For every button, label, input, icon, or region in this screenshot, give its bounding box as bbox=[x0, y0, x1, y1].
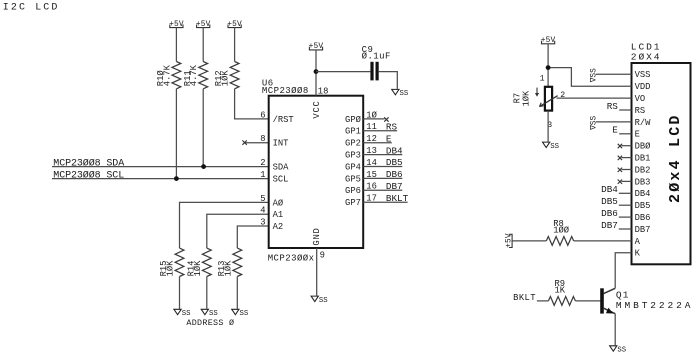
svg-text:1: 1 bbox=[260, 170, 265, 180]
wire R14 to ground bbox=[206, 277, 208, 309]
pin label VCC bbox=[312, 100, 322, 118]
net label DB5 bbox=[386, 157, 403, 168]
svg-text:/RST: /RST bbox=[273, 115, 294, 125]
resistor R14 10K bbox=[186, 248, 211, 276]
net label E at LCD bbox=[612, 125, 618, 136]
svg-text:1K: 1K bbox=[555, 285, 566, 295]
wire INT pin 8 stub bbox=[245, 142, 269, 144]
resistor R8 100 bbox=[546, 219, 573, 245]
LCD1 pin labels bbox=[635, 70, 652, 259]
svg-text:DB5: DB5 bbox=[386, 157, 403, 168]
power +5V above R12 bbox=[227, 21, 242, 29]
ground VSS below R7 bbox=[543, 142, 560, 151]
svg-text:GP4: GP4 bbox=[345, 162, 361, 172]
net label MCP23008_SDA bbox=[53, 157, 124, 169]
svg-text:VO: VO bbox=[635, 94, 646, 104]
power +5V above R11 bbox=[196, 21, 211, 29]
svg-text:BKLT: BKLT bbox=[386, 193, 409, 204]
svg-text:AØ: AØ bbox=[273, 198, 284, 208]
svg-text:2: 2 bbox=[560, 91, 565, 100]
pin label GND bbox=[312, 227, 322, 245]
svg-text:I2C LCD: I2C LCD bbox=[3, 2, 60, 13]
svg-text:SS: SS bbox=[617, 347, 626, 355]
svg-text:DB6: DB6 bbox=[635, 213, 651, 223]
label 20x4 LCD rotated bbox=[667, 113, 684, 203]
wire R/W pin bbox=[596, 121, 632, 123]
svg-text:RS: RS bbox=[635, 106, 646, 116]
svg-text:8: 8 bbox=[260, 134, 265, 144]
svg-text:E: E bbox=[635, 130, 640, 140]
wire net MCP23008_SDA bbox=[52, 166, 269, 168]
svg-text:DB7: DB7 bbox=[601, 220, 618, 231]
svg-text:GND: GND bbox=[312, 227, 322, 245]
U6 right pin labels GP0-GP7 and numbers bbox=[345, 110, 378, 208]
svg-text:1ØK: 1ØK bbox=[166, 260, 176, 277]
svg-text:RS: RS bbox=[607, 101, 619, 112]
op-amp? no: IC U6 MCP23008 box bbox=[269, 96, 364, 248]
wire R15 to ground bbox=[179, 277, 181, 309]
wire K pin to Q1 collector bbox=[615, 253, 631, 288]
U6 left pin labels and numbers bbox=[260, 110, 294, 232]
title I2C LCD bbox=[3, 2, 60, 13]
svg-text:INT: INT bbox=[273, 139, 289, 149]
svg-text:DB5: DB5 bbox=[635, 201, 651, 211]
label MCP2300x bbox=[268, 253, 315, 263]
svg-text:ADDRESS Ø: ADDRESS Ø bbox=[186, 318, 234, 328]
svg-text:MCP23ØØ8: MCP23ØØ8 bbox=[262, 86, 309, 96]
svg-text:1ØK: 1ØK bbox=[193, 260, 203, 277]
svg-text:2: 2 bbox=[260, 158, 265, 168]
svg-text:GP1: GP1 bbox=[345, 127, 361, 137]
svg-text:DB4: DB4 bbox=[386, 145, 403, 156]
ground VSS at C9 bbox=[392, 89, 409, 98]
svg-text:SS: SS bbox=[240, 310, 249, 318]
resistor R13 10K bbox=[217, 248, 242, 276]
Q1 collector lead bbox=[604, 288, 616, 293]
svg-text:MCP23ØØ8_SDA: MCP23ØØ8_SDA bbox=[53, 157, 124, 169]
svg-text:Ø.1uF: Ø.1uF bbox=[362, 51, 391, 61]
svg-text:A1: A1 bbox=[273, 210, 284, 220]
svg-text:VSS: VSS bbox=[635, 70, 651, 80]
no-connect mark DB2 bbox=[618, 168, 622, 172]
no-connect mark DB0 bbox=[618, 144, 622, 148]
svg-text:DB7: DB7 bbox=[386, 181, 403, 192]
resistor R9 1K bbox=[548, 279, 575, 305]
wire DB5 pin bbox=[619, 204, 632, 206]
net label DB6 bbox=[386, 169, 403, 180]
net label RS at LCD bbox=[607, 101, 619, 112]
svg-text:DB5: DB5 bbox=[601, 196, 618, 207]
ground VSS label at LCD VSS bbox=[590, 68, 599, 83]
LCD1 box bbox=[632, 63, 691, 264]
wire C9 to ground bbox=[379, 72, 398, 89]
wire R12 to /RST pin 6 bbox=[235, 89, 269, 119]
svg-text:GP3: GP3 bbox=[345, 151, 361, 161]
svg-text:DB6: DB6 bbox=[601, 208, 618, 219]
svg-text:SS: SS bbox=[550, 143, 559, 151]
svg-text:∇SS: ∇SS bbox=[590, 116, 599, 131]
wire GP4 net DB5 bbox=[363, 166, 402, 168]
svg-text:A: A bbox=[635, 237, 641, 247]
ground VSS label at R/W bbox=[590, 116, 599, 131]
wire Q1 emitter to ground bbox=[614, 314, 616, 346]
svg-text:1ØK: 1ØK bbox=[223, 260, 233, 277]
resistor R12 10K bbox=[214, 62, 239, 89]
resistor R15 10K bbox=[159, 248, 184, 276]
R7 wiper arrow bbox=[540, 96, 558, 107]
ground VSS below Q1 bbox=[610, 346, 627, 355]
pin number 9 bbox=[320, 250, 325, 260]
wire GP6 net DB7 bbox=[363, 189, 402, 191]
svg-text:VCC: VCC bbox=[312, 100, 322, 118]
power +5V above R7 bbox=[541, 37, 556, 45]
net label DB7 at LCD bbox=[601, 220, 618, 231]
no-connect mark INT bbox=[242, 140, 246, 144]
refdes U6 bbox=[262, 79, 274, 89]
capacitor C9 0.1uF bbox=[362, 45, 391, 81]
refdes LCD1 bbox=[631, 42, 662, 53]
wire R9 to Q1 base bbox=[575, 300, 600, 302]
svg-text:4.7K: 4.7K bbox=[162, 64, 172, 86]
svg-text:9: 9 bbox=[320, 250, 325, 260]
svg-text:4.7K: 4.7K bbox=[189, 64, 199, 86]
svg-text:SS: SS bbox=[182, 310, 191, 318]
refdes Q1 bbox=[616, 290, 630, 301]
svg-text:DB2: DB2 bbox=[635, 165, 651, 175]
wire A pin to R15 bbox=[180, 202, 269, 248]
value 10K rotated bbox=[522, 90, 532, 107]
junction VCC/C9 bbox=[314, 69, 319, 74]
svg-text:GP7: GP7 bbox=[345, 198, 361, 208]
wire DB1 stub bbox=[621, 157, 631, 159]
resistor R11 4.7K bbox=[183, 62, 208, 89]
net label DB6 at LCD bbox=[601, 208, 618, 219]
wire +5V to R10 bbox=[175, 28, 177, 62]
wire +5V to R11 bbox=[202, 28, 204, 62]
power +5V above U6 bbox=[309, 43, 324, 51]
pin number 18 bbox=[318, 86, 329, 96]
wire R10 to SCL net bbox=[175, 89, 177, 179]
wire DB6 pin bbox=[619, 216, 632, 218]
wire GP3 net DB4 bbox=[363, 154, 402, 156]
junction SCL/R10 bbox=[174, 176, 179, 181]
no-connect mark DB3 bbox=[618, 180, 622, 184]
svg-text:1ØK: 1ØK bbox=[522, 90, 532, 107]
wire GP1 net RS bbox=[363, 130, 397, 132]
svg-text:GP5: GP5 bbox=[345, 174, 361, 184]
svg-text:E: E bbox=[386, 133, 392, 144]
svg-text:MMBT2222A: MMBT2222A bbox=[616, 300, 693, 311]
wire DB3 stub bbox=[621, 180, 631, 182]
svg-text:5: 5 bbox=[260, 194, 265, 204]
svg-text:SS: SS bbox=[319, 297, 328, 305]
wire GP5 net DB6 bbox=[363, 177, 402, 179]
wire VCC junction to C9 bbox=[316, 71, 370, 73]
wire VCC pin 18 bbox=[315, 50, 317, 96]
svg-text:DBØ: DBØ bbox=[635, 142, 652, 152]
svg-text:DB6: DB6 bbox=[386, 169, 403, 180]
net label DB7 bbox=[386, 181, 403, 192]
junction SDA/R11 bbox=[201, 164, 206, 169]
svg-text:RS: RS bbox=[386, 122, 398, 133]
svg-text:SCL: SCL bbox=[273, 175, 289, 185]
svg-text:K: K bbox=[635, 249, 641, 259]
wire RS pin bbox=[619, 109, 631, 111]
wire +5V to R8 bbox=[512, 240, 546, 242]
svg-text:A2: A2 bbox=[273, 222, 284, 232]
wire DB7 pin bbox=[619, 228, 632, 230]
wire wiper to VO bbox=[557, 97, 632, 99]
wire +5V to R7 pin1 bbox=[547, 44, 549, 87]
net label E bbox=[386, 133, 392, 144]
net label DB4 at LCD bbox=[601, 184, 618, 195]
svg-text:∇SS: ∇SS bbox=[590, 68, 599, 83]
wire A pin to R14 bbox=[207, 214, 269, 248]
wire DB4 pin bbox=[619, 192, 632, 194]
ground VSS below U6 bbox=[311, 296, 328, 305]
wire GP0 pin 10 stub bbox=[363, 118, 384, 120]
net label DB4 bbox=[386, 145, 403, 156]
svg-text:MCP23ØØx: MCP23ØØx bbox=[268, 253, 315, 263]
no-connect mark DB1 bbox=[618, 156, 622, 160]
wire GP7 net BKLT bbox=[363, 201, 407, 203]
svg-text:BKLT: BKLT bbox=[513, 293, 536, 303]
svg-text:DB4: DB4 bbox=[635, 189, 651, 199]
junction R7/VDD bbox=[546, 65, 551, 70]
wire VSS pin bbox=[596, 73, 632, 75]
wire R13 to ground bbox=[236, 277, 238, 309]
svg-text:GP2: GP2 bbox=[345, 139, 361, 149]
wire DB0 stub bbox=[621, 145, 631, 147]
svg-text:3: 3 bbox=[260, 217, 265, 227]
wire BKLT to R9 bbox=[537, 300, 549, 302]
refdes R7 rotated bbox=[513, 93, 523, 104]
wire DB2 stub bbox=[621, 169, 631, 171]
svg-text:18: 18 bbox=[318, 86, 329, 96]
R7 pin 1 number bbox=[540, 74, 545, 83]
svg-text:DB1: DB1 bbox=[635, 154, 651, 164]
net label MCP23008_SCL bbox=[53, 169, 124, 181]
svg-text:E: E bbox=[612, 125, 618, 136]
power +5V above R10 bbox=[169, 21, 184, 29]
svg-text:1: 1 bbox=[540, 74, 545, 83]
svg-text:1ØØ: 1ØØ bbox=[553, 226, 570, 236]
svg-text:SS: SS bbox=[209, 310, 218, 318]
net label RS bbox=[386, 122, 398, 133]
wire A pin bbox=[574, 240, 632, 242]
svg-text:SDA: SDA bbox=[273, 163, 290, 173]
wire +5V to VDD bbox=[548, 68, 631, 87]
transistor Q1 base bar bbox=[600, 288, 604, 313]
svg-text:GP6: GP6 bbox=[345, 186, 361, 196]
svg-text:VDD: VDD bbox=[635, 82, 651, 92]
power +5V left of R8 bbox=[506, 233, 514, 248]
wire R7 pin3 to ground bbox=[547, 111, 549, 142]
no-connect mark GP0 bbox=[384, 117, 388, 121]
wire R11 to SDA net bbox=[202, 89, 204, 167]
value MMBT2222A bbox=[616, 300, 693, 311]
value MCP23008 bbox=[262, 86, 309, 96]
net label BKLT bbox=[386, 193, 409, 204]
svg-text:2ØX4: 2ØX4 bbox=[631, 52, 662, 63]
svg-text:SS: SS bbox=[400, 90, 409, 98]
svg-text:DB4: DB4 bbox=[601, 184, 618, 195]
R7 pin 3 number bbox=[547, 121, 552, 130]
wire E pin bbox=[619, 133, 631, 135]
svg-text:1ØK: 1ØK bbox=[221, 70, 231, 87]
value 20X4 bbox=[631, 52, 662, 63]
svg-text:DB3: DB3 bbox=[635, 177, 651, 187]
wire net MCP23008_SCL bbox=[52, 178, 269, 180]
net label DB5 at LCD bbox=[601, 196, 618, 207]
wire GND pin 9 bbox=[316, 248, 318, 296]
potentiometer R7 body bbox=[545, 87, 552, 111]
R7 pin 2 number bbox=[560, 91, 565, 100]
net label BKLT bbox=[513, 293, 536, 303]
svg-text:DB7: DB7 bbox=[635, 225, 651, 235]
wire A pin to R13 bbox=[237, 226, 268, 248]
svg-text:R/W: R/W bbox=[635, 118, 652, 128]
ground VSS below R15 bbox=[174, 309, 191, 318]
svg-text:6: 6 bbox=[260, 110, 265, 120]
label ADDRESS 0 bbox=[186, 318, 234, 328]
wire GP2 net E bbox=[363, 142, 392, 144]
ground VSS below R14 bbox=[201, 309, 218, 318]
resistor R10 4.7K bbox=[156, 62, 181, 89]
ground VSS below R13 bbox=[232, 309, 249, 318]
svg-text:2Øx4 LCD: 2Øx4 LCD bbox=[667, 113, 684, 203]
Q1 emitter arrow bbox=[606, 308, 614, 314]
Q1 emitter lead bbox=[604, 308, 616, 314]
svg-text:4: 4 bbox=[260, 206, 265, 216]
R7 adjust arrow bbox=[535, 88, 539, 97]
svg-text:MCP23ØØ8_SCL: MCP23ØØ8_SCL bbox=[53, 169, 124, 181]
svg-text:Q1: Q1 bbox=[616, 290, 630, 301]
wire +5V to R12 bbox=[234, 28, 236, 62]
svg-text:GPØ: GPØ bbox=[345, 115, 362, 125]
